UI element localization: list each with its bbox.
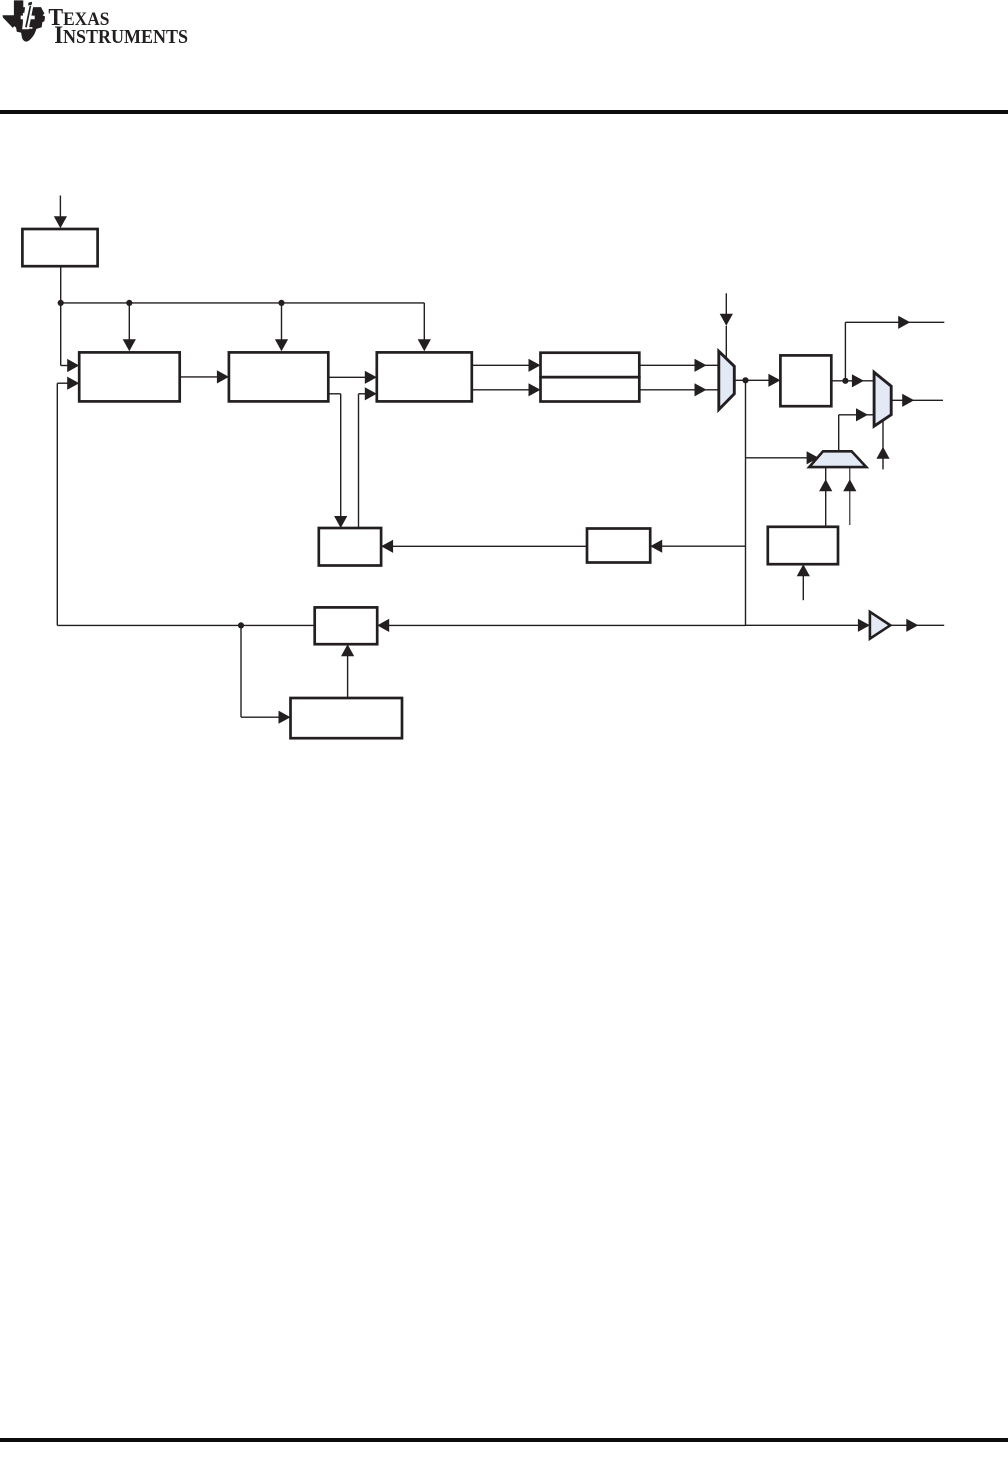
wire M1 output to SQ block — [734, 374, 780, 387]
wire bus corner drop into block C top — [418, 303, 431, 351]
junction dot bus at block A drop — [126, 300, 132, 306]
wire R1 to mux M1 upper input — [639, 359, 718, 372]
block RB (right) — [768, 527, 838, 564]
block SB2 (on feedback line) — [315, 607, 378, 644]
wire trap-mux output up into M2 lower input — [839, 408, 874, 451]
header rule — [0, 110, 1008, 114]
TI logo: black i slash — [25, 6, 31, 28]
junction dot bus-left — [58, 300, 64, 306]
block SQ (square) — [780, 355, 831, 406]
block diagram — [0, 180, 1008, 780]
wire B0 output down to clock bus — [60, 266, 62, 303]
register R2 (lower) — [541, 377, 640, 401]
wire R2 to mux M1 lower input — [639, 383, 718, 396]
block SB1 (status) — [319, 528, 381, 566]
wire A to B with arrowhead — [180, 370, 229, 383]
TI logo: Texas map silhouette — [3, 0, 46, 41]
wire M2 select stub with up arrowhead — [876, 421, 889, 470]
wire bus-left down into block A upper input — [61, 303, 79, 372]
mux M2 — [874, 372, 891, 426]
TI logo: white t letter — [21, 13, 35, 29]
block B — [229, 352, 328, 401]
TI logo: white i band — [22, 6, 33, 30]
block B0 (clock input block) — [22, 229, 97, 266]
wire buffer output with arrowhead — [890, 619, 944, 632]
block A — [79, 352, 180, 401]
junction dot feedback line — [238, 622, 244, 628]
wire BB output up into SB2 bottom — [341, 644, 354, 698]
wire TM right select stub — [843, 467, 856, 525]
wire C to R1 with arrowhead — [472, 359, 541, 372]
wire C to R2 with arrowhead — [472, 383, 541, 396]
wire B to C upper with arrowhead — [328, 371, 377, 384]
wire SB1 feedback up into block C lower input — [359, 387, 377, 528]
wire RB select stub from below — [797, 564, 810, 600]
wire SQ output to mux M2 upper input — [831, 374, 874, 387]
wire into B0 top with arrowhead — [54, 196, 67, 229]
register R1 (upper) — [541, 353, 640, 378]
wire B lower output down to status block SB1 — [328, 394, 347, 528]
wire trunk-to-SB2 with left arrowhead — [377, 619, 745, 632]
junction dot SQ output — [842, 378, 848, 384]
trapezoid mux TM — [809, 451, 866, 467]
footer rule — [0, 1438, 1008, 1442]
buffer BUF (triangle) — [870, 612, 890, 639]
wire trunk to MB with arrowhead — [650, 540, 745, 553]
wire trunk vertical — [745, 380, 747, 625]
wire trunk into TM left with big arrowhead — [746, 451, 819, 464]
junction dot bus at block B drop — [278, 300, 284, 306]
wire top output with arrowhead — [845, 316, 944, 381]
block MB (middle) — [587, 529, 650, 563]
block C — [377, 352, 472, 401]
wire M1 select from top with arrowhead — [720, 293, 733, 359]
wire RB output up into TM bottom — [819, 467, 832, 527]
TI logo: black i tittle — [28, 2, 32, 6]
block BB (bottom) — [291, 698, 403, 738]
wire M2 output with arrowhead — [891, 394, 943, 407]
long feedback wire left section — [57, 624, 314, 626]
wire bus drop into block A top — [123, 303, 136, 351]
junction dot M1 output — [742, 377, 748, 383]
wire feedback up into block A lower input — [57, 377, 79, 626]
clock bus horizontal wire — [61, 302, 425, 304]
wire feedback branch down into block BB — [241, 625, 291, 723]
wire bus drop into block B top — [275, 303, 288, 351]
wire trunk to buffer input with arrowhead — [746, 619, 870, 632]
TEXAS INSTRUMENTS wordmark — [0, 0, 240, 50]
wire MB to SB1 with arrowhead — [381, 540, 587, 553]
mux M1 — [719, 351, 735, 409]
